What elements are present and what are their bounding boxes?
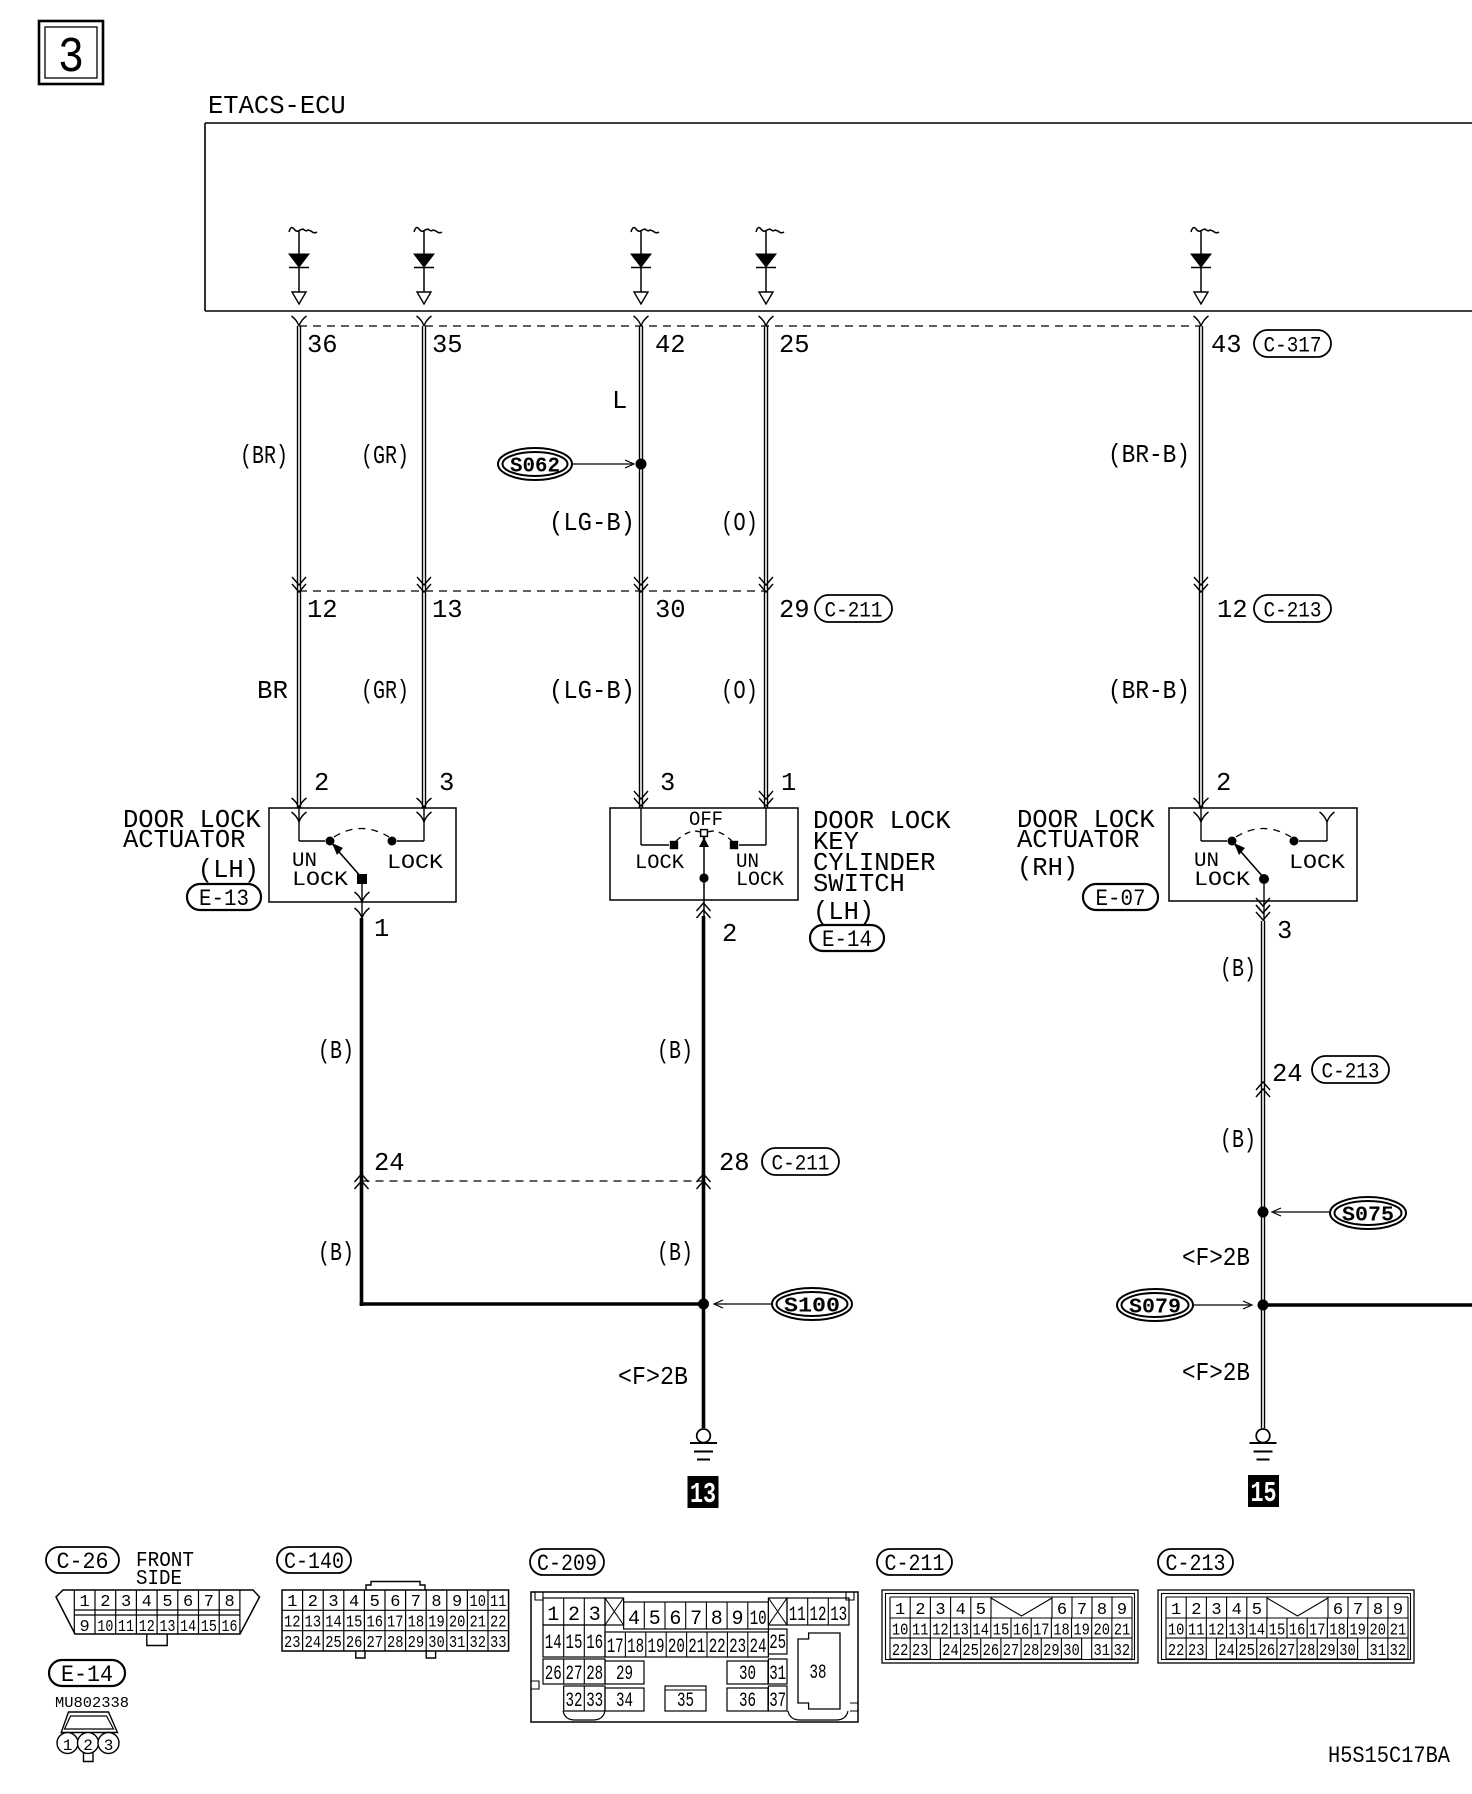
svg-text:25: 25 (779, 331, 810, 360)
svg-text:(B): (B) (318, 1239, 354, 1268)
svg-text:C-26: C-26 (57, 1549, 109, 1575)
ground wire from key cylinder pin 2 (B) (702, 916, 706, 1428)
svg-text:3: 3 (660, 769, 675, 798)
splice S075 (1258, 1197, 1407, 1229)
svg-text:32: 32 (566, 1690, 583, 1713)
svg-text:2: 2 (83, 1737, 93, 1755)
svg-text:21: 21 (469, 1613, 486, 1632)
svg-text:9: 9 (1117, 1601, 1127, 1620)
wire label (GR) (361, 442, 409, 471)
wire label (B) (657, 1037, 693, 1066)
svg-text:13: 13 (830, 1604, 847, 1627)
svg-text:13: 13 (690, 1478, 716, 1511)
door lock key cylinder switch box (610, 808, 798, 900)
svg-text:5: 5 (162, 1593, 172, 1612)
svg-text:26: 26 (1259, 1642, 1276, 1661)
svg-text:(LH): (LH) (198, 856, 259, 885)
svg-text:15: 15 (1251, 1477, 1277, 1510)
svg-text:11: 11 (789, 1604, 806, 1627)
ECU output driver U2 (414, 228, 442, 304)
connector C-213 pinout (1158, 1590, 1414, 1663)
svg-text:LOCK: LOCK (387, 852, 443, 875)
svg-text:29: 29 (1319, 1642, 1336, 1661)
connector E-14 pinout (57, 1712, 119, 1762)
wire label (LG-B) (549, 509, 635, 538)
svg-text:3: 3 (104, 1737, 114, 1755)
svg-text:1: 1 (1171, 1601, 1181, 1620)
svg-text:C-211: C-211 (772, 1152, 830, 1177)
svg-text:17: 17 (607, 1636, 624, 1659)
svg-text:10: 10 (750, 1608, 767, 1631)
ETACS-ECU label (208, 92, 346, 121)
svg-text:11: 11 (490, 1593, 507, 1612)
wire 42 to key cylinder switch pin 3 (L/LG-B) (640, 326, 643, 808)
svg-text:24: 24 (1272, 1060, 1303, 1089)
svg-text:2: 2 (1216, 769, 1231, 798)
pin 3 key cylinder switch (660, 769, 675, 798)
svg-text:C-213: C-213 (1166, 1551, 1226, 1577)
wire label (F)2B (618, 1363, 688, 1392)
svg-text:(BR-B): (BR-B) (1108, 441, 1190, 470)
pin 12 C-213 (1217, 596, 1248, 625)
svg-text:2: 2 (722, 920, 737, 949)
connector terminal fork (292, 316, 307, 326)
ground reference 15 (1248, 1475, 1279, 1510)
svg-text:12: 12 (284, 1613, 301, 1632)
svg-text:S079: S079 (1129, 1297, 1181, 1320)
svg-text:(LG-B): (LG-B) (549, 677, 635, 706)
wire 25 to key cylinder switch pin 1 (O) (765, 326, 768, 808)
pin 24 (374, 1149, 405, 1178)
svg-text:29: 29 (779, 596, 810, 625)
svg-text:10: 10 (469, 1593, 486, 1612)
svg-text:8: 8 (1373, 1601, 1383, 1620)
svg-text:(BR): (BR) (240, 442, 288, 471)
connector C-26 pinout (56, 1590, 260, 1646)
svg-text:2: 2 (1191, 1601, 1201, 1620)
svg-text:38: 38 (810, 1662, 827, 1685)
svg-text:(BR-B): (BR-B) (1108, 677, 1190, 706)
door lock actuator RH pin 3 exit (1256, 884, 1270, 921)
door lock actuator RH terminals (1194, 798, 1335, 822)
door lock actuator LH name (123, 806, 261, 885)
svg-text:C-213: C-213 (1264, 599, 1322, 624)
wire label (LG-B) (549, 677, 635, 706)
connector C-209 pinout (531, 1592, 858, 1722)
front side note (136, 1550, 194, 1591)
connector label E-14 (49, 1660, 125, 1688)
svg-text:(GR): (GR) (361, 442, 409, 471)
svg-text:<F>2B: <F>2B (1182, 1359, 1250, 1388)
connector C-140 pinout (282, 1582, 509, 1659)
ECU output driver U4 (756, 228, 784, 304)
svg-text:4: 4 (956, 1601, 966, 1620)
svg-text:8: 8 (224, 1593, 234, 1612)
svg-text:30: 30 (739, 1663, 756, 1686)
ECU output driver U1 (289, 228, 317, 304)
ground wire from actuator LH pin 1 (B) (360, 918, 364, 1306)
wire 36 to door lock actuator LH pin 2 (BR) (298, 326, 301, 808)
svg-text:23: 23 (729, 1636, 746, 1659)
svg-text:9: 9 (731, 1608, 743, 1631)
svg-text:LOCK: LOCK (1289, 852, 1345, 875)
svg-text:8: 8 (431, 1593, 441, 1612)
svg-text:5: 5 (976, 1601, 986, 1620)
svg-text:28: 28 (387, 1634, 404, 1653)
svg-text:32: 32 (469, 1634, 486, 1653)
svg-text:4: 4 (142, 1593, 152, 1612)
svg-text:<F>2B: <F>2B (618, 1363, 688, 1392)
svg-text:SWITCH: SWITCH (813, 870, 905, 899)
key cylinder switch contacts (635, 808, 784, 892)
svg-text:35: 35 (432, 331, 463, 360)
svg-text:7: 7 (411, 1593, 421, 1612)
svg-text:1: 1 (895, 1601, 905, 1620)
door lock actuator LH box (269, 808, 456, 902)
svg-text:2: 2 (100, 1593, 110, 1612)
ground bus wire left (360, 1302, 704, 1306)
svg-text:(O): (O) (721, 509, 758, 538)
svg-text:43: 43 (1211, 331, 1242, 360)
connector terminal fork (634, 316, 649, 326)
C-213 terminal chevrons on wire 43 (1194, 577, 1208, 592)
svg-text:7: 7 (1353, 1601, 1363, 1620)
pin 29 (779, 596, 810, 625)
svg-text:13: 13 (305, 1613, 322, 1632)
svg-text:28: 28 (1299, 1642, 1316, 1661)
pin 30 (655, 596, 686, 625)
svg-text:6: 6 (390, 1593, 400, 1612)
svg-text:30: 30 (1063, 1642, 1080, 1661)
wire label (GR) (361, 677, 409, 706)
svg-text:23: 23 (1188, 1642, 1205, 1661)
wire label (O) (721, 509, 758, 538)
svg-text:ETACS-ECU: ETACS-ECU (208, 92, 346, 121)
pin 24 C-213 (1272, 1060, 1303, 1089)
svg-text:10: 10 (97, 1618, 113, 1637)
svg-text:32: 32 (1114, 1642, 1131, 1661)
svg-text:16: 16 (222, 1618, 238, 1637)
svg-text:C-317: C-317 (1264, 334, 1322, 359)
pin 2 label (722, 920, 737, 949)
connector terminal fork (759, 316, 774, 326)
svg-text:24: 24 (1218, 1642, 1235, 1661)
page number box 3 (39, 21, 103, 87)
svg-text:25: 25 (769, 1632, 786, 1655)
pin 2 door lock actuator LH (314, 769, 329, 798)
ground symbol left (690, 1429, 717, 1460)
splice S079 (1117, 1289, 1269, 1321)
svg-text:19: 19 (428, 1613, 445, 1632)
wire label (BR-B) (1108, 441, 1190, 470)
pin 1 key cylinder switch (781, 769, 796, 798)
connector label C-317 (1254, 330, 1331, 359)
svg-text:2: 2 (568, 1604, 580, 1627)
svg-text:S100: S100 (784, 1296, 840, 1319)
svg-text:C-211: C-211 (825, 599, 883, 624)
connector label C-213 (1312, 1056, 1389, 1085)
svg-text:27: 27 (566, 1663, 583, 1686)
svg-text:30: 30 (428, 1634, 445, 1653)
pin 25 (779, 331, 810, 360)
svg-text:LOCK: LOCK (292, 869, 348, 892)
wire label (O) (721, 677, 758, 706)
svg-text:1: 1 (374, 915, 389, 944)
connector label C-213 (1254, 595, 1331, 624)
key cylinder switch name (813, 807, 951, 927)
svg-text:28: 28 (1023, 1642, 1040, 1661)
wire 35 to door lock actuator LH pin 3 (GR) (423, 326, 426, 808)
wire label (B) (657, 1239, 693, 1268)
svg-text:15: 15 (201, 1618, 217, 1637)
svg-text:LOCK: LOCK (736, 869, 784, 892)
drawing number H5S15C17BA (1328, 1743, 1450, 1769)
svg-text:3: 3 (328, 1593, 338, 1612)
joint connector dashed line C-211 ground (362, 1180, 704, 1182)
svg-text:2: 2 (915, 1601, 925, 1620)
svg-text:27: 27 (1279, 1642, 1296, 1661)
svg-text:24: 24 (374, 1149, 405, 1178)
svg-text:20: 20 (668, 1636, 685, 1659)
connector label E-13 (187, 884, 261, 912)
svg-text:5: 5 (370, 1593, 380, 1612)
connector label C-211 (877, 1549, 952, 1577)
svg-text:15: 15 (346, 1613, 363, 1632)
wire label (BR-B) (1108, 677, 1190, 706)
svg-text:31: 31 (1370, 1642, 1387, 1661)
svg-text:C-211: C-211 (885, 1551, 945, 1577)
svg-text:E-13: E-13 (199, 886, 249, 912)
pin 1 label (374, 915, 389, 944)
svg-text:28: 28 (719, 1149, 750, 1178)
ECU output driver U3 (631, 228, 659, 304)
svg-text:7: 7 (690, 1608, 702, 1631)
svg-text:E-14: E-14 (61, 1662, 113, 1688)
svg-text:5: 5 (649, 1608, 661, 1631)
svg-text:1: 1 (287, 1593, 297, 1612)
wire label BR (257, 677, 288, 706)
connector label C-209 (530, 1549, 604, 1577)
door lock actuator RH name (1017, 806, 1155, 883)
connector terminal fork (1194, 316, 1209, 326)
ground reference 13 (688, 1476, 719, 1511)
svg-text:12: 12 (307, 596, 338, 625)
svg-text:31: 31 (769, 1663, 786, 1686)
svg-text:25: 25 (325, 1634, 342, 1653)
key cylinder switch terminals (634, 791, 773, 806)
wire label (B) (1220, 955, 1256, 984)
svg-text:15: 15 (566, 1632, 583, 1655)
svg-text:28: 28 (586, 1663, 603, 1686)
svg-text:MU802338: MU802338 (55, 1696, 129, 1712)
svg-text:36: 36 (739, 1690, 756, 1713)
svg-text:36: 36 (307, 331, 338, 360)
svg-text:26: 26 (346, 1634, 363, 1653)
svg-text:3: 3 (935, 1601, 945, 1620)
svg-text:ACTUATOR: ACTUATOR (123, 826, 245, 855)
svg-text:E-14: E-14 (822, 927, 872, 953)
C-211 ground chevrons (355, 1174, 711, 1189)
svg-text:11: 11 (118, 1618, 134, 1637)
joint connector dashed line C-211 (299, 590, 766, 592)
svg-text:(LG-B): (LG-B) (549, 509, 635, 538)
svg-text:18: 18 (627, 1636, 644, 1659)
svg-text:27: 27 (1003, 1642, 1020, 1661)
svg-text:C-140: C-140 (284, 1549, 344, 1575)
pin 28 (719, 1149, 750, 1178)
svg-text:1: 1 (781, 769, 796, 798)
svg-text:22: 22 (1168, 1642, 1185, 1661)
splice S100 (698, 1288, 852, 1320)
svg-text:3: 3 (439, 769, 454, 798)
pin 43 (1211, 331, 1242, 360)
svg-text:42: 42 (655, 331, 686, 360)
svg-text:3: 3 (1211, 1601, 1221, 1620)
svg-text:12: 12 (810, 1604, 827, 1627)
svg-text:37: 37 (769, 1690, 786, 1713)
svg-text:7: 7 (204, 1593, 214, 1612)
wire label (F)2B (1182, 1244, 1250, 1273)
svg-text:H5S15C17BA: H5S15C17BA (1328, 1743, 1450, 1769)
svg-text:30: 30 (655, 596, 686, 625)
svg-text:3: 3 (589, 1604, 601, 1627)
connector label E-07 (1083, 884, 1158, 912)
svg-text:6: 6 (1333, 1601, 1343, 1620)
door lock actuator LH terminals (292, 798, 432, 822)
svg-text:17: 17 (387, 1613, 404, 1632)
splice S062 (498, 448, 647, 480)
svg-text:32: 32 (1390, 1642, 1407, 1661)
svg-text:20: 20 (449, 1613, 466, 1632)
ECU connector dashed line C-317 (299, 325, 1201, 327)
svg-text:(B): (B) (1220, 1126, 1256, 1155)
svg-text:26: 26 (983, 1642, 1000, 1661)
svg-text:25: 25 (1238, 1642, 1255, 1661)
ground symbol right (1250, 1429, 1277, 1460)
C-211 terminal chevrons (417, 577, 431, 592)
svg-text:9: 9 (1393, 1601, 1403, 1620)
svg-text:6: 6 (183, 1593, 193, 1612)
ECU output driver U5 (1191, 228, 1219, 304)
pin 35 (432, 331, 463, 360)
connector terminal fork (417, 316, 432, 326)
svg-text:L: L (612, 387, 627, 416)
svg-text:34: 34 (616, 1690, 633, 1713)
svg-text:4: 4 (628, 1608, 640, 1631)
svg-text:3: 3 (58, 30, 84, 87)
wire label L (612, 387, 627, 416)
svg-text:29: 29 (408, 1634, 425, 1653)
svg-text:21: 21 (688, 1636, 705, 1659)
connector label C-211 (815, 595, 892, 624)
pin 36 (307, 331, 338, 360)
svg-text:9: 9 (452, 1593, 462, 1612)
svg-text:2: 2 (314, 769, 329, 798)
svg-text:18: 18 (408, 1613, 425, 1632)
pin 3 door lock actuator LH (439, 769, 454, 798)
svg-text:31: 31 (449, 1634, 466, 1653)
ground bus wire right (1263, 1303, 1472, 1307)
svg-text:1: 1 (80, 1593, 90, 1612)
svg-text:8: 8 (711, 1608, 723, 1631)
svg-text:31: 31 (1094, 1642, 1111, 1661)
svg-text:9: 9 (80, 1618, 90, 1637)
svg-text:(O): (O) (721, 677, 758, 706)
svg-text:LOCK: LOCK (1194, 869, 1250, 892)
svg-text:S062: S062 (510, 456, 560, 479)
svg-text:LOCK: LOCK (635, 852, 684, 875)
svg-text:14: 14 (325, 1613, 342, 1632)
svg-text:ACTUATOR: ACTUATOR (1017, 826, 1139, 855)
svg-text:8: 8 (1097, 1601, 1107, 1620)
svg-text:33: 33 (586, 1690, 603, 1713)
svg-text:14: 14 (545, 1632, 562, 1655)
svg-text:33: 33 (490, 1634, 507, 1653)
svg-text:29: 29 (616, 1663, 633, 1686)
ETACS-ECU box (205, 123, 1472, 311)
connector C-211 pinout (882, 1590, 1138, 1663)
wire label (B) (318, 1037, 354, 1066)
svg-text:5: 5 (1252, 1601, 1262, 1620)
pin 2 door lock actuator RH (1216, 769, 1231, 798)
svg-text:(B): (B) (1220, 955, 1256, 984)
connector label C-213 (1158, 1549, 1233, 1577)
wire label (BR) (240, 442, 288, 471)
svg-text:C-209: C-209 (537, 1551, 597, 1577)
svg-text:14: 14 (180, 1618, 196, 1637)
door lock actuator LH pin 1 exit (355, 884, 370, 918)
svg-text:7: 7 (1077, 1601, 1087, 1620)
svg-text:6: 6 (1057, 1601, 1067, 1620)
svg-text:(GR): (GR) (361, 677, 409, 706)
svg-text:SIDE: SIDE (136, 1568, 182, 1591)
svg-text:24: 24 (750, 1636, 767, 1659)
svg-text:<F>2B: <F>2B (1182, 1244, 1250, 1273)
svg-text:1: 1 (63, 1737, 73, 1755)
svg-text:OFF: OFF (689, 809, 723, 832)
svg-text:23: 23 (284, 1634, 301, 1653)
door lock actuator RH box (1169, 808, 1357, 901)
svg-text:C-213: C-213 (1322, 1060, 1380, 1085)
door lock actuator RH switch (1194, 808, 1345, 892)
svg-text:BR: BR (257, 677, 288, 706)
door lock actuator LH switch (292, 808, 443, 892)
wire label (B) (318, 1239, 354, 1268)
pin 12 (307, 596, 338, 625)
svg-text:3: 3 (121, 1593, 131, 1612)
ground wire from actuator RH pin 3 (B) (1262, 921, 1265, 1428)
svg-text:4: 4 (1232, 1601, 1242, 1620)
svg-text:(RH): (RH) (1017, 854, 1078, 883)
svg-text:22: 22 (709, 1636, 726, 1659)
svg-text:27: 27 (366, 1634, 383, 1653)
svg-text:3: 3 (1277, 917, 1292, 946)
svg-text:23: 23 (912, 1642, 929, 1661)
C-211 terminal chevrons (634, 577, 648, 592)
C-211 terminal chevrons (759, 577, 773, 592)
svg-text:16: 16 (586, 1632, 603, 1655)
svg-text:24: 24 (942, 1642, 959, 1661)
part number MU802338 (55, 1696, 129, 1712)
svg-text:13: 13 (432, 596, 463, 625)
svg-text:25: 25 (962, 1642, 979, 1661)
svg-text:26: 26 (545, 1663, 562, 1686)
svg-text:35: 35 (677, 1690, 694, 1713)
svg-text:6: 6 (669, 1608, 681, 1631)
wire 43 to door lock actuator RH pin 2 (BR-B) (1200, 326, 1203, 808)
connector label E-14 (810, 925, 884, 953)
svg-text:2: 2 (308, 1593, 318, 1612)
